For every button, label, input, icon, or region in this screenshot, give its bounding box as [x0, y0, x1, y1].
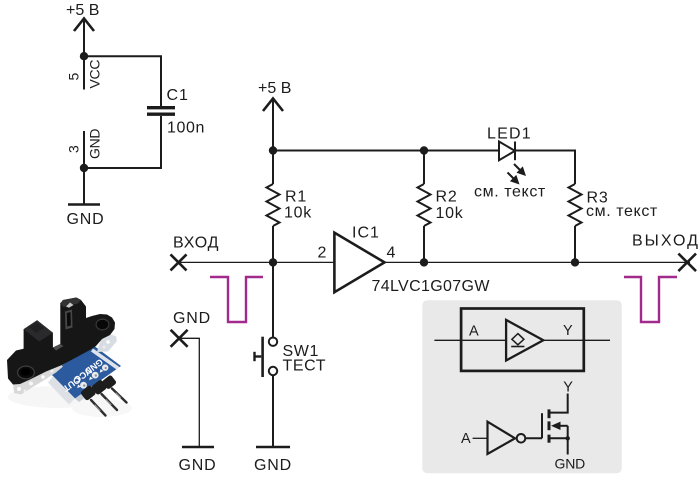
output waveform pulse	[624, 277, 677, 322]
pin 3 stub (IC1 GND)	[83, 131, 85, 168]
input waveform pulse	[210, 277, 263, 322]
ground (test point)	[182, 446, 214, 449]
svg-text:ВХОД: ВХОД	[173, 234, 219, 251]
buffer symbol box (logic diagram)	[461, 309, 584, 371]
mounting hole (right lobe)	[96, 319, 109, 330]
svg-text:10k: 10k	[284, 205, 312, 222]
node VCC junction	[80, 52, 88, 60]
svg-text:A: A	[461, 431, 471, 447]
node R3 output junction	[571, 258, 579, 266]
svg-text:3: 3	[66, 145, 82, 153]
svg-text:+5 В: +5 В	[258, 80, 291, 97]
power +5V supply (main circuit)	[258, 80, 291, 151]
pin headers	[80, 375, 117, 402]
svg-text:100n: 100n	[167, 120, 205, 137]
LED LED1	[499, 142, 526, 185]
dark mark on left prong	[29, 323, 44, 334]
white mark on prong top	[66, 303, 74, 308]
buffer triangle with open-drain symbol	[506, 320, 543, 361]
inverter triangle	[488, 422, 516, 454]
svg-text:5: 5	[66, 73, 82, 81]
header pins	[91, 389, 127, 416]
svg-text:GND: GND	[179, 457, 217, 474]
resistor R3	[569, 184, 582, 262]
node +5V rail junction at R2	[420, 146, 428, 154]
svg-text:VCC: VCC	[87, 60, 103, 89]
svg-text:ТЕСТ: ТЕСТ	[283, 358, 327, 375]
svg-text:R1: R1	[285, 189, 307, 206]
inverter output bubble	[517, 434, 526, 443]
svg-text:GND: GND	[67, 211, 105, 228]
sensor black body	[7, 298, 115, 385]
ground (SW1)	[256, 446, 290, 449]
wire A to Y through buffer	[434, 339, 506, 341]
node +5V rail junction at R1	[269, 146, 277, 154]
switch SW1 pushbutton	[255, 337, 278, 377]
node input terminal X (ВХОД)	[171, 254, 187, 270]
node source junction dot	[566, 436, 570, 440]
ground (C1)	[68, 203, 100, 206]
svg-text:GND: GND	[87, 129, 103, 159]
right prong top facet	[60, 298, 81, 308]
svg-text:Y: Y	[563, 379, 573, 395]
buffer IC1 (74LVC1G07) triangle	[334, 233, 384, 293]
wire input to IC1 pin 2	[179, 261, 335, 263]
wire bubble to gate	[525, 437, 542, 439]
metal bracket strip (bottom-left)	[13, 363, 63, 395]
svg-text:Y: Y	[563, 323, 573, 339]
svg-text:R2: R2	[436, 189, 458, 206]
resistor R1	[267, 151, 280, 263]
wire VCC to C1	[84, 56, 161, 106]
PCB top-right edge highlight	[91, 349, 120, 370]
svg-text:74LVC1G07GW: 74LVC1G07GW	[372, 278, 491, 295]
mounting hole (left lobe)	[18, 366, 35, 379]
left prong top facet	[24, 320, 53, 341]
svg-text:GND: GND	[555, 456, 586, 472]
wire input node to SW1	[272, 262, 274, 337]
wire junction to ground	[83, 168, 85, 204]
svg-text:см. текст: см. текст	[474, 184, 546, 201]
node GND junction	[80, 164, 88, 172]
wire Y to MOSFET drain	[549, 394, 568, 413]
svg-text:A: A	[469, 324, 479, 340]
svg-text:+5 В: +5 В	[66, 2, 99, 19]
power +5V supply of IC1 (top-left)	[66, 2, 99, 56]
svg-text:IC1: IC1	[352, 225, 380, 242]
wire LED cathode to R3 corner	[515, 151, 575, 185]
svg-text:2: 2	[318, 245, 327, 262]
wire IC1 output to output terminal	[385, 261, 691, 263]
wire C1 to pin 3	[84, 116, 161, 168]
node GND test terminal X	[171, 330, 188, 347]
inset panel background	[422, 300, 622, 473]
svg-text:GND: GND	[173, 310, 211, 327]
svg-text:C1: C1	[167, 87, 189, 104]
wire SW1 to ground	[272, 375, 274, 447]
svg-text:LED1: LED1	[487, 126, 532, 143]
wire +5V rail segment R1 to LED	[273, 150, 499, 152]
resistor R2	[418, 151, 431, 263]
PCB bottom edge band	[48, 376, 75, 405]
solder joints	[80, 382, 87, 389]
PCB silkscreen white arrows	[77, 385, 81, 389]
blue PCB	[50, 345, 121, 399]
wire GND test point to ground	[179, 338, 199, 447]
capacitor C1	[147, 108, 175, 115]
node input junction	[269, 258, 277, 266]
right prong sensor window	[65, 310, 73, 330]
svg-text:см. текст: см. текст	[586, 203, 658, 220]
svg-text:ВЫХОД: ВЫХОД	[632, 232, 700, 249]
svg-text:GND: GND	[254, 457, 292, 474]
photo soft shadow	[8, 386, 108, 408]
slot ledge	[53, 344, 64, 351]
svg-text:4: 4	[387, 245, 396, 262]
node output terminal X (ВЫХОД)	[678, 254, 696, 272]
metal band (right side)	[97, 335, 117, 353]
wire A to inverter	[473, 437, 488, 439]
wire source to GND	[567, 438, 569, 454]
node R2 output junction	[420, 258, 428, 266]
photo: optical slot sensor module	[7, 298, 132, 418]
transistor Q1 open-drain NMOS	[542, 409, 568, 442]
svg-text:10k: 10k	[436, 205, 464, 222]
pin 5 stub (IC1 VCC)	[83, 56, 85, 90]
